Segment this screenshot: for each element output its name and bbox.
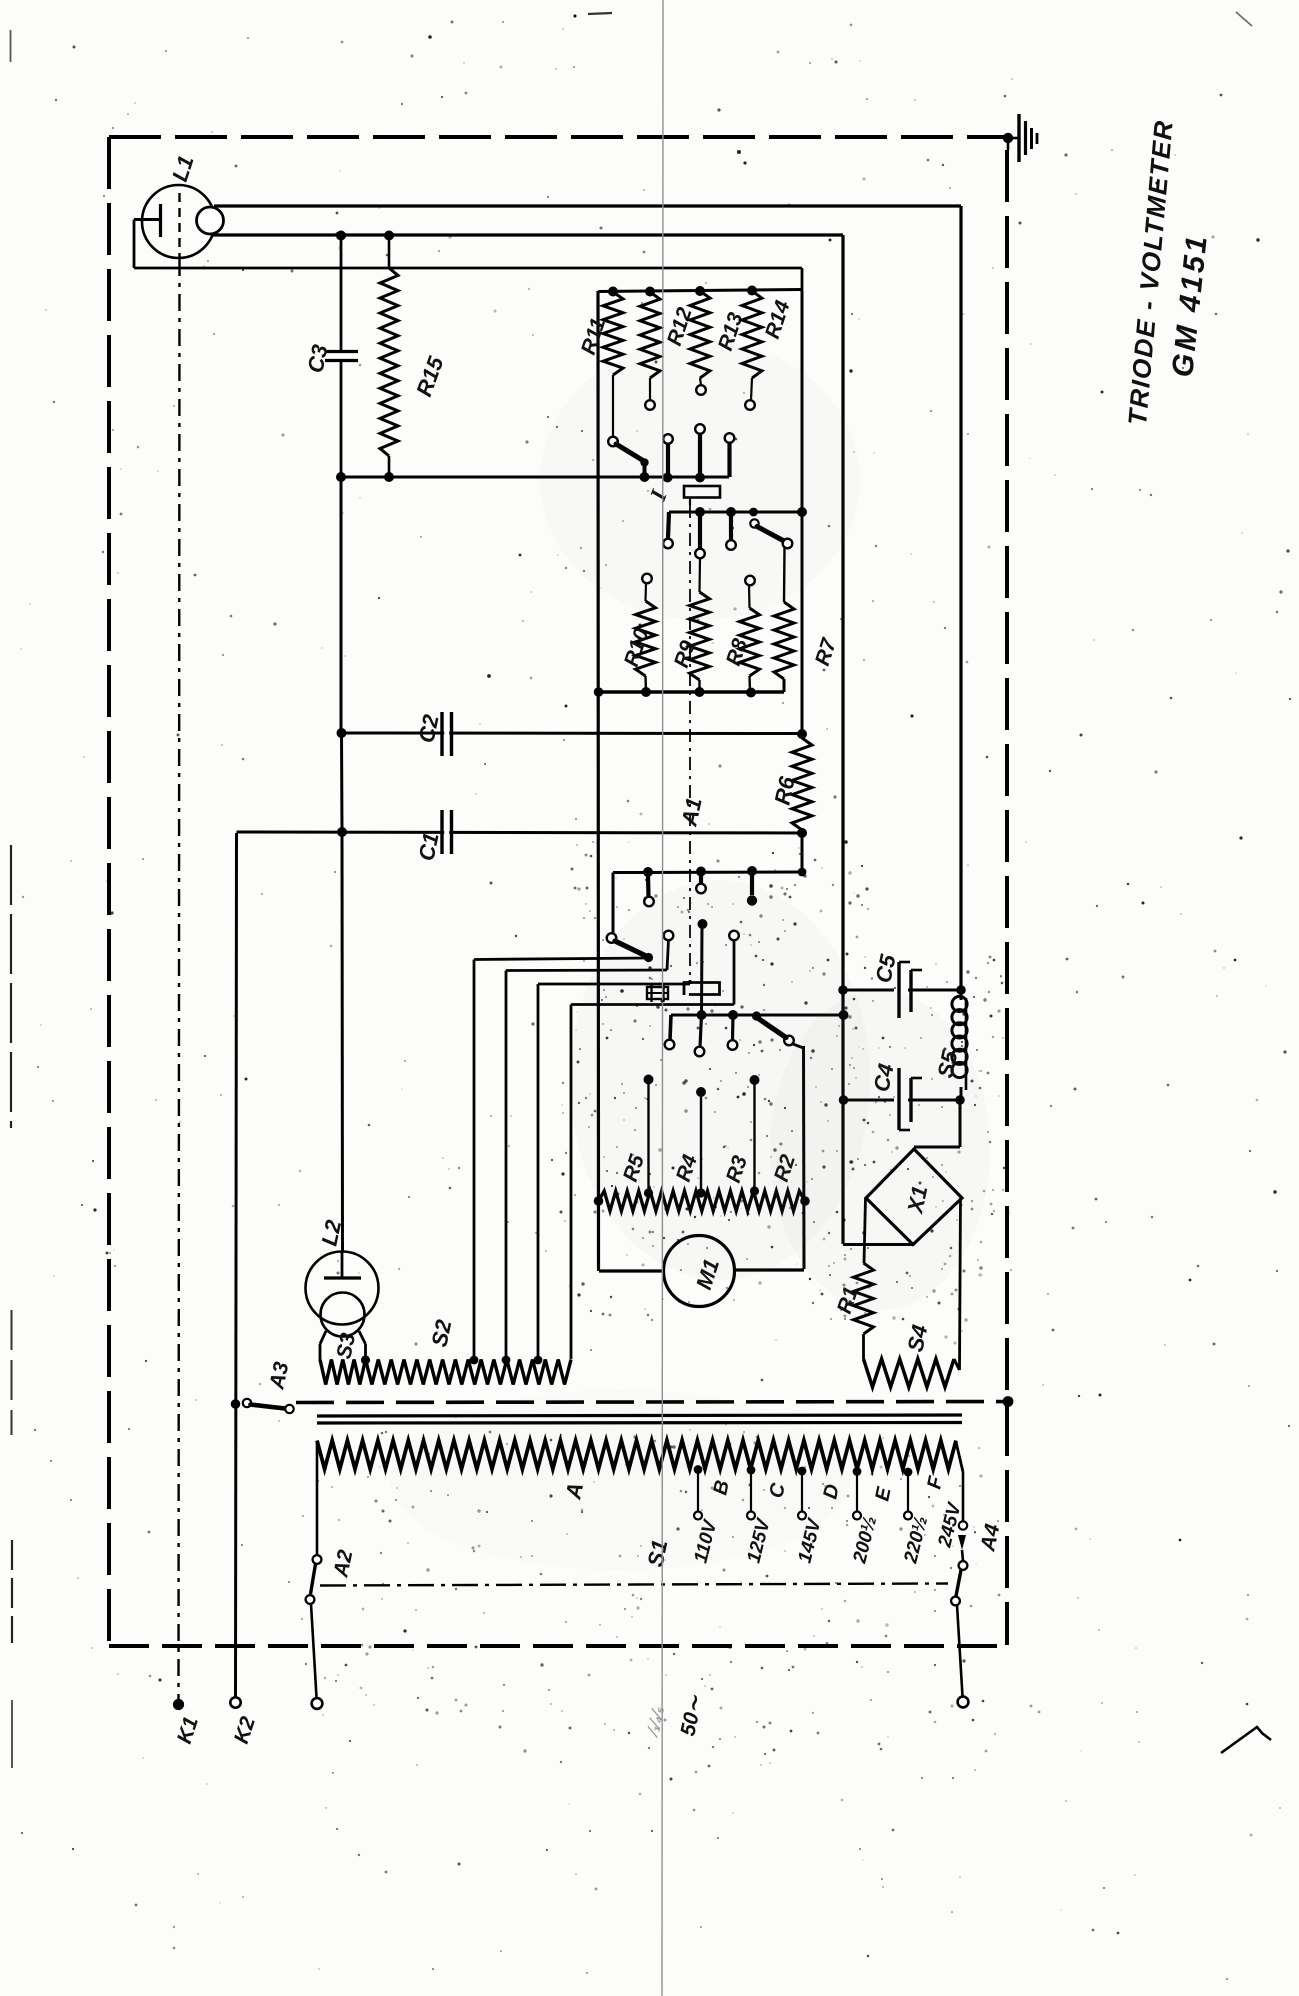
junction bbox=[643, 867, 653, 877]
linkage dash-dot line A2-A4 bbox=[320, 1584, 948, 1586]
rectifier X1 bbox=[866, 1149, 962, 1245]
junction bbox=[695, 473, 705, 483]
junction C4 left bbox=[839, 1095, 849, 1105]
resistor R14 bbox=[742, 291, 762, 400]
label winding section A bbox=[560, 1480, 588, 1502]
label tap 110V bbox=[690, 1517, 721, 1565]
label tap 145V bbox=[794, 1516, 825, 1565]
wire deck III rail bbox=[670, 1015, 843, 1040]
svg-text:F: F bbox=[923, 1474, 947, 1491]
junction bbox=[798, 868, 807, 877]
label C5 bbox=[870, 952, 900, 985]
label R2 bbox=[770, 1152, 800, 1185]
label X1 bbox=[902, 1184, 932, 1217]
svg-text:R11: R11 bbox=[577, 315, 610, 357]
terminal A4 bbox=[958, 1697, 969, 1708]
junction bbox=[746, 688, 756, 698]
wire R1 to S4 bbox=[862, 1334, 865, 1359]
label deck numeral I bbox=[645, 486, 672, 505]
wire primary right down to A4 bbox=[956, 1442, 963, 1521]
label R13 bbox=[714, 309, 748, 353]
switch A2 bbox=[306, 1555, 322, 1697]
junction R15 top bbox=[384, 231, 394, 241]
label R14 bbox=[761, 297, 795, 341]
switch S deck I upper contacts bbox=[608, 385, 755, 477]
label R3 bbox=[722, 1153, 752, 1186]
junction bbox=[594, 687, 604, 697]
wire meter right bbox=[735, 1268, 805, 1271]
junction bbox=[695, 507, 705, 517]
svg-text:R6: R6 bbox=[769, 774, 799, 807]
resistor R13 bbox=[690, 291, 710, 385]
wire X1 bottom to rail bbox=[843, 1243, 913, 1246]
winding S2 bbox=[366, 1360, 572, 1385]
switch blade deck III bbox=[752, 1011, 804, 1048]
primary tap C bbox=[747, 1466, 756, 1520]
wire deck I left rail (box side) bbox=[596, 291, 600, 1269]
resistor R9 bbox=[690, 558, 710, 692]
svg-text:GM 4151: GM 4151 bbox=[1166, 232, 1214, 379]
junction C4 right bbox=[955, 1095, 965, 1105]
junction C5 right bbox=[956, 985, 966, 995]
resistor R11 bbox=[603, 292, 623, 436]
label R9 bbox=[670, 638, 700, 671]
tap R4/R3 bbox=[696, 1087, 706, 1198]
switch A4 bbox=[951, 1521, 967, 1696]
meter M1 bbox=[664, 1236, 735, 1307]
label tap 125V bbox=[743, 1516, 774, 1565]
junction bbox=[641, 687, 651, 697]
junction bbox=[747, 866, 757, 876]
capacitor C2 plates bbox=[442, 712, 452, 756]
wire S4 right to X1 right bbox=[954, 1198, 961, 1370]
label R11 bbox=[577, 315, 610, 357]
switch S deck III contacts bbox=[665, 1015, 794, 1056]
label C3 bbox=[302, 342, 332, 375]
svg-text:⁄₁⁄₄⁄₅: ⁄₁⁄₄⁄₅ bbox=[642, 1704, 667, 1740]
svg-text:A3: A3 bbox=[265, 1360, 293, 1392]
resistor chain R5 R4 R3 R2 bbox=[599, 1191, 806, 1211]
terminal A2 bbox=[312, 1698, 323, 1709]
wire S2 tap 3 to wiper II bbox=[538, 980, 690, 1359]
label K2 bbox=[230, 1714, 260, 1747]
label mains frequency 50Hz bbox=[676, 1692, 707, 1738]
fold crease line bbox=[662, 0, 663, 1996]
junction C3 top bbox=[336, 231, 346, 241]
wiper bar deck I bbox=[684, 486, 720, 505]
junction bbox=[695, 286, 705, 296]
label S1 bbox=[642, 1538, 672, 1570]
label S5 bbox=[932, 1048, 962, 1080]
svg-text:C1: C1 bbox=[413, 830, 443, 863]
wire S2 tap 4 to deck II contact bbox=[571, 940, 734, 1359]
wire deck III blade down to meter bbox=[802, 1046, 806, 1269]
switch blade deck I lower bbox=[749, 508, 792, 549]
label R10 bbox=[620, 625, 654, 669]
junction bbox=[663, 473, 673, 483]
junction bbox=[594, 1196, 604, 1206]
junction bbox=[696, 867, 706, 877]
junction R6 bottom / C1 bbox=[797, 828, 807, 838]
resistor R1 bbox=[854, 1263, 874, 1334]
winding S3 bbox=[320, 1360, 366, 1385]
wire meter left bbox=[599, 1269, 664, 1271]
primary tap E bbox=[853, 1467, 862, 1519]
label L1 bbox=[167, 152, 199, 184]
wire R15/C3 bottom to switch deck I rail bbox=[341, 476, 729, 479]
label section B bbox=[709, 1478, 734, 1497]
switch A3 bbox=[231, 1399, 294, 1413]
wire L2 filament left to S3 bbox=[320, 1331, 326, 1360]
svg-text:A1: A1 bbox=[676, 795, 707, 829]
wire left rail C3 down to L2 bbox=[341, 477, 343, 1251]
wire primary left down to A2 bbox=[316, 1442, 319, 1554]
primary tap F bbox=[904, 1468, 913, 1520]
transformer core bbox=[317, 1415, 962, 1423]
switch S deck I lower contacts bbox=[663, 512, 736, 558]
terminal K2 bbox=[230, 1697, 240, 1707]
scan gray wash bbox=[390, 340, 990, 1570]
junction bbox=[384, 472, 394, 482]
junction bbox=[337, 728, 347, 738]
junction C5 left bbox=[838, 985, 848, 995]
label A2 bbox=[329, 1548, 357, 1580]
wire deck I top rail bbox=[598, 290, 802, 292]
resistor R15 bbox=[380, 236, 398, 477]
winding A (mains primary) bbox=[317, 1441, 956, 1470]
wire S2 tap 2 to deck II bbox=[506, 940, 669, 1359]
junction bbox=[640, 472, 650, 482]
resistor R8 bbox=[740, 576, 760, 692]
label R7 bbox=[811, 635, 842, 669]
label S3 bbox=[332, 1331, 360, 1361]
junction deck rail bbox=[797, 507, 807, 517]
capacitor C3 bbox=[325, 235, 358, 477]
wire S2 tap 1 to deck II blade bbox=[474, 958, 649, 1359]
label L2 bbox=[316, 1217, 346, 1248]
junction bbox=[697, 1010, 707, 1020]
junction rail to right bbox=[839, 1010, 849, 1020]
svg-text:K1: K1 bbox=[173, 1714, 203, 1747]
wire L2 filament right to S2/S3 junction bbox=[359, 1331, 366, 1359]
tap R5/R4 bbox=[644, 1075, 654, 1198]
junction bbox=[800, 1196, 810, 1206]
label R5 bbox=[619, 1152, 649, 1185]
label section C bbox=[765, 1481, 790, 1500]
label A1 bbox=[676, 795, 707, 829]
svg-text:E: E bbox=[871, 1485, 895, 1503]
resistor R10 bbox=[636, 574, 656, 692]
label R1 bbox=[833, 1284, 863, 1317]
primary tap B bbox=[694, 1465, 703, 1519]
junction S3/S2 bbox=[361, 1355, 370, 1364]
switch S deck II contacts bbox=[607, 875, 758, 1015]
svg-text:L1: L1 bbox=[167, 152, 199, 184]
svg-text:C5: C5 bbox=[870, 952, 900, 985]
label section D bbox=[819, 1482, 844, 1501]
label tap 220V bbox=[900, 1514, 932, 1566]
label S4 bbox=[902, 1323, 932, 1355]
resistor R12 bbox=[640, 292, 660, 400]
wire X1 left to R1 bbox=[864, 1198, 866, 1263]
label section F bbox=[923, 1474, 947, 1491]
title TRIODE-VOLTMETER bbox=[1122, 118, 1179, 426]
junction chassis/border bbox=[1003, 1396, 1014, 1407]
capacitor C1 wire bbox=[237, 832, 803, 833]
wire deck I lower rail bbox=[669, 511, 802, 514]
wire blade to R7 bbox=[783, 548, 786, 602]
chassis dashed line above core bbox=[296, 1402, 1008, 1403]
triode tube L1 bbox=[134, 185, 224, 259]
svg-text:TRIODE - VOLTMETER: TRIODE - VOLTMETER bbox=[1122, 118, 1179, 426]
label tap 200V bbox=[849, 1514, 881, 1566]
label R8 bbox=[722, 636, 752, 669]
svg-text:A4: A4 bbox=[976, 1522, 1004, 1554]
label C2 bbox=[413, 712, 443, 745]
svg-text:S3: S3 bbox=[332, 1331, 360, 1361]
wire L1 lower to right rail bbox=[213, 235, 843, 1244]
label R4 bbox=[672, 1152, 702, 1185]
resistor R6 bbox=[792, 738, 812, 833]
switch blade deck II bbox=[615, 941, 653, 962]
label tap 245V bbox=[934, 1500, 966, 1550]
junction S2 tap2 bbox=[502, 1356, 511, 1365]
svg-text:R14: R14 bbox=[761, 297, 795, 341]
capacitor C4 bbox=[843, 1068, 960, 1130]
wiper bar deck II bbox=[684, 983, 720, 996]
svg-text:200½: 200½ bbox=[849, 1514, 881, 1566]
svg-text:K2: K2 bbox=[230, 1714, 260, 1747]
chassis dashed border bbox=[109, 137, 1007, 1646]
svg-text:50∼: 50∼ bbox=[676, 1692, 707, 1738]
label K1 bbox=[173, 1714, 203, 1747]
label R6 bbox=[769, 774, 799, 807]
mark top centre bbox=[574, 13, 613, 18]
title GM4151 bbox=[1166, 232, 1214, 379]
page edge artifact left bbox=[11, 30, 13, 1768]
wire plate rail down (deck feeds) bbox=[801, 291, 804, 735]
terminal K1 bbox=[173, 1699, 184, 1710]
ghost text voltage range bbox=[642, 1704, 667, 1740]
junction bbox=[645, 287, 655, 297]
wire anode of L1 down and right bbox=[134, 220, 802, 292]
junction R6 top / C2 bbox=[797, 729, 807, 739]
pen mark bottom right bbox=[1221, 1727, 1271, 1753]
resistor R7 bbox=[774, 602, 794, 692]
label S2 bbox=[426, 1317, 456, 1349]
tap R3/R2 bbox=[750, 1075, 760, 1196]
junction bbox=[695, 687, 705, 697]
junction bbox=[728, 1010, 738, 1020]
junction bbox=[337, 827, 347, 837]
terminal K1 lead (cathode dashed) bbox=[179, 259, 180, 1699]
capacitor C1 plates bbox=[442, 810, 452, 854]
svg-text:S4: S4 bbox=[902, 1323, 932, 1355]
svg-text:C2: C2 bbox=[413, 712, 443, 745]
switch blade deck I bbox=[616, 444, 649, 477]
wire C4 to X1 top bbox=[914, 1100, 960, 1147]
wire grid-top (L1 to C5 rail) bbox=[214, 206, 961, 990]
linkage dash-dot line A1 bbox=[689, 505, 691, 980]
capacitor C5 bbox=[843, 962, 961, 1018]
terminal K2 lead bbox=[236, 833, 237, 1697]
winding S5 (coil) bbox=[952, 990, 967, 1100]
capacitor C2 wire bbox=[342, 732, 803, 736]
wire deck II rail bbox=[613, 872, 802, 933]
svg-text:A2: A2 bbox=[329, 1548, 357, 1580]
junction bbox=[608, 287, 618, 297]
label R15 bbox=[411, 353, 449, 400]
junction bbox=[726, 507, 736, 517]
label C1 bbox=[413, 830, 443, 863]
rectifier tube L2 bbox=[306, 1251, 379, 1337]
svg-text:R15: R15 bbox=[411, 353, 449, 400]
wire C1 node up to switch deck II rail bbox=[801, 833, 804, 872]
ground symbol (chassis earth, top right) bbox=[1003, 114, 1037, 162]
label A3 bbox=[265, 1360, 293, 1392]
winding S4 bbox=[864, 1359, 955, 1387]
svg-text:R10: R10 bbox=[620, 625, 654, 669]
connector mark deck II bbox=[647, 984, 668, 1002]
label section E bbox=[871, 1485, 895, 1503]
label M1 bbox=[691, 1256, 724, 1293]
wire deck I bottom rail bbox=[598, 679, 784, 692]
junction bbox=[747, 286, 757, 296]
junction S2 tap3 bbox=[534, 1356, 543, 1365]
svg-text:C3: C3 bbox=[302, 342, 332, 375]
label A4 bbox=[976, 1522, 1004, 1554]
svg-text:S2: S2 bbox=[426, 1317, 456, 1349]
junction S2 tap1 bbox=[470, 1356, 479, 1365]
svg-text:220½: 220½ bbox=[900, 1514, 932, 1566]
junction bbox=[336, 472, 346, 482]
svg-text:R7: R7 bbox=[811, 635, 842, 669]
primary tap D bbox=[798, 1467, 807, 1520]
label R12 bbox=[663, 304, 697, 348]
label C4 bbox=[868, 1061, 898, 1094]
mark top right bbox=[1236, 12, 1252, 26]
